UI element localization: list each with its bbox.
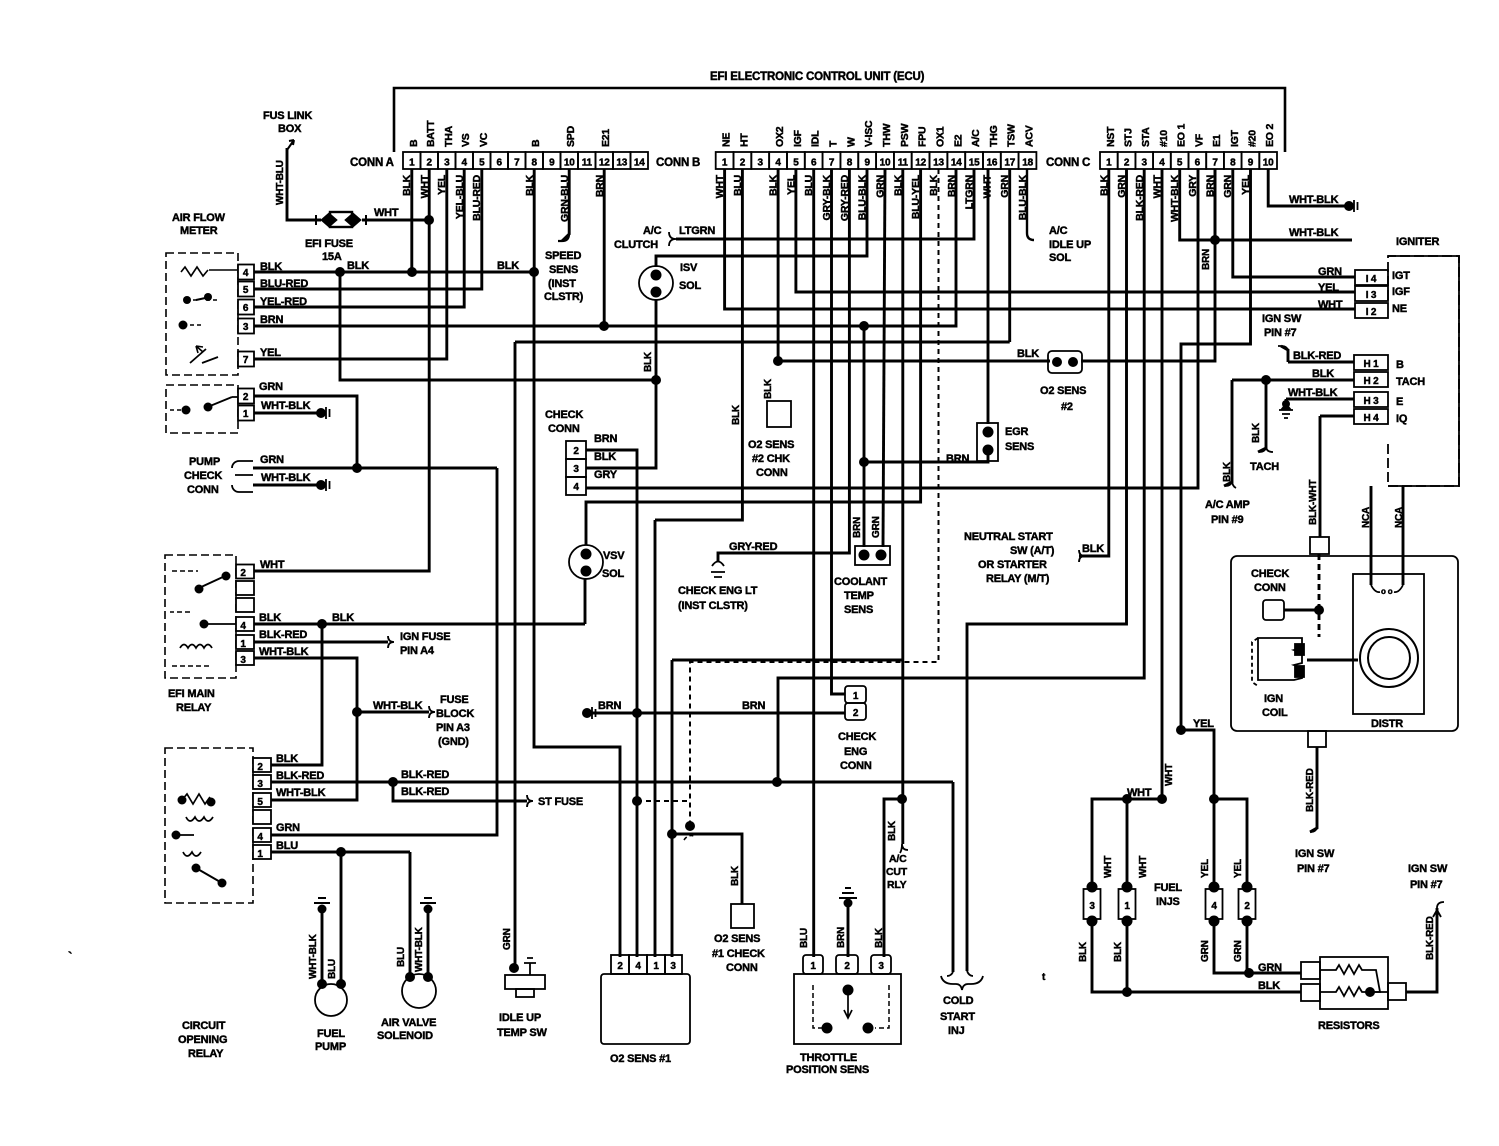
rotated labels <box>275 160 1436 979</box>
svg-text:2: 2 <box>844 961 850 972</box>
svg-text:CLSTR): CLSTR) <box>544 291 584 303</box>
svg-text:CUT: CUT <box>886 866 908 878</box>
resistors <box>1301 957 1406 1009</box>
connector stub pump check conn end <box>317 479 330 491</box>
svg-text:1: 1 <box>243 409 249 420</box>
svg-text:2: 2 <box>427 158 433 169</box>
svg-text:BLK: BLK <box>1017 348 1039 360</box>
svg-text:2: 2 <box>617 961 623 972</box>
svg-text:IGF: IGF <box>1392 286 1410 298</box>
svg-text:AIR FLOW: AIR FLOW <box>172 212 226 224</box>
svg-text:COOLANT: COOLANT <box>834 576 887 588</box>
svg-text:IGF: IGF <box>792 129 804 147</box>
svg-text:COIL: COIL <box>1262 707 1288 719</box>
wire coil conn dashed <box>1318 554 1321 637</box>
svg-text:2: 2 <box>573 446 579 457</box>
bracket neutral start BLK <box>1079 550 1085 562</box>
svg-text:13: 13 <box>933 158 944 169</box>
svg-text:`: ` <box>68 949 72 964</box>
svg-text:4: 4 <box>462 158 468 169</box>
svg-text:O2 SENS: O2 SENS <box>1040 385 1086 397</box>
wire efi relay pin1 BLK-RED <box>254 641 388 644</box>
svg-text:TACH: TACH <box>1250 461 1279 473</box>
injector 3 <box>1084 889 1101 919</box>
wire B10 GRN to coolant <box>883 169 885 547</box>
wire vsv sol top to B12 <box>586 169 921 545</box>
svg-text:WHT: WHT <box>1318 299 1343 311</box>
svg-text:OX2: OX2 <box>774 126 786 147</box>
svg-text:7: 7 <box>514 158 520 169</box>
check eng conn connector <box>845 686 866 703</box>
relay CIRCUIT OPENING RELAY <box>165 748 271 903</box>
svg-text:1: 1 <box>257 849 263 860</box>
svg-text:8: 8 <box>532 158 538 169</box>
svg-text:EFI ELECTRONIC CONTROL UNIT (E: EFI ELECTRONIC CONTROL UNIT (ECU) <box>710 71 925 83</box>
svg-text:I 2: I 2 <box>1366 307 1377 318</box>
svg-text:INJS: INJS <box>1156 896 1180 908</box>
cold start inj brace <box>941 976 983 990</box>
svg-text:14: 14 <box>634 158 645 169</box>
svg-text:4: 4 <box>257 832 263 843</box>
svg-text:WHT-BLK: WHT-BLK <box>1289 194 1339 206</box>
svg-text:o o: o o <box>1381 587 1393 596</box>
wire o2 sens2 BRN to C7 <box>1081 169 1215 361</box>
svg-text:VC: VC <box>478 132 490 147</box>
wire B13 dashed <box>690 169 939 826</box>
svg-text:CONN: CONN <box>548 423 580 435</box>
wire C8 GRN to igniter IGT <box>1233 169 1355 277</box>
svg-text:LTGRN: LTGRN <box>679 225 715 237</box>
svg-text:RLY: RLY <box>887 879 907 891</box>
svg-text:BRN: BRN <box>260 314 283 326</box>
svg-text:CONN A: CONN A <box>350 157 394 169</box>
wire check conn pin4 GRY to C6 <box>586 169 1198 488</box>
wire fuel pump WHT-BLK <box>321 908 324 983</box>
svg-text:TACH: TACH <box>1396 376 1425 388</box>
svg-text:WHT-BLK: WHT-BLK <box>259 646 309 658</box>
svg-text:BLK-RED: BLK-RED <box>1305 768 1316 812</box>
svg-text:SENS: SENS <box>549 264 578 276</box>
svg-text:BLK: BLK <box>1222 461 1233 482</box>
svg-text:NCA: NCA <box>1361 507 1372 528</box>
svg-text:8: 8 <box>847 158 853 169</box>
svg-text:B: B <box>530 139 542 147</box>
svg-text:WHT-BLK: WHT-BLK <box>261 400 311 412</box>
svg-text:RELAY (M/T): RELAY (M/T) <box>986 573 1050 585</box>
svg-text:17: 17 <box>1004 158 1015 169</box>
wire afm pin2 GRN <box>253 396 357 468</box>
wire GRN down to cor pin4 <box>271 468 497 835</box>
svg-text:PIN #7: PIN #7 <box>1297 863 1330 875</box>
ECU box outline <box>394 88 1285 152</box>
svg-text:#2 CHK: #2 CHK <box>752 453 790 465</box>
wire A2 WHT down <box>254 169 429 571</box>
svg-text:RELAY: RELAY <box>176 702 212 714</box>
wire dashed link to BRN <box>637 800 690 802</box>
tach hook <box>1259 446 1273 452</box>
svg-text:2: 2 <box>853 708 859 719</box>
svg-text:WHT: WHT <box>1164 764 1175 786</box>
svg-text:ENG: ENG <box>844 746 867 758</box>
check conn square (coil box) <box>1263 600 1284 620</box>
wire injector3 BLK down <box>1092 919 1301 992</box>
svg-text:SPD: SPD <box>565 125 577 147</box>
svg-text:SOLENOID: SOLENOID <box>377 1030 433 1042</box>
ign sw pin7 hook (H1) <box>1278 346 1288 352</box>
wire tps pin2 BRN gnd <box>847 898 850 957</box>
svg-text:YEL: YEL <box>1200 859 1211 878</box>
wire TACH branch <box>1258 380 1266 452</box>
svg-text:IGN: IGN <box>1264 693 1283 705</box>
svg-text:YEL: YEL <box>260 347 281 359</box>
svg-text:BLOCK: BLOCK <box>436 708 474 720</box>
svg-text:VS: VS <box>460 133 472 147</box>
svg-text:GRN: GRN <box>260 454 284 466</box>
check eng lt lamp <box>711 562 725 578</box>
connector stub air flow meter pin1 end <box>317 407 330 419</box>
wire BLK-RED to cold start inj <box>952 782 955 972</box>
wire A1 BLK <box>410 169 413 272</box>
wire A10 GRN-BLU speed sens <box>562 169 569 241</box>
svg-text:6: 6 <box>243 303 249 314</box>
svg-text:BLK: BLK <box>497 260 519 272</box>
svg-text:SW (A/T): SW (A/T) <box>1010 545 1055 557</box>
svg-text:3: 3 <box>1142 158 1148 169</box>
igniter box <box>1388 256 1459 486</box>
wire pump check conn WHT-BLK <box>253 484 319 487</box>
svg-text:7: 7 <box>1212 158 1218 169</box>
svg-text:WHT-BLK: WHT-BLK <box>261 472 311 484</box>
svg-text:3: 3 <box>257 779 263 790</box>
svg-text:PIN A3: PIN A3 <box>436 722 470 734</box>
svg-text:INJ: INJ <box>948 1025 965 1037</box>
svg-text:A/C: A/C <box>1049 225 1068 237</box>
svg-text:E1: E1 <box>1211 134 1223 147</box>
svg-text:EFI FUSE: EFI FUSE <box>305 238 353 250</box>
svg-text:#1 CHECK: #1 CHECK <box>712 948 765 960</box>
svg-text:BRN: BRN <box>742 700 765 712</box>
svg-text:4: 4 <box>775 158 781 169</box>
svg-text:BLK: BLK <box>1078 941 1089 962</box>
connector strip CONN B <box>656 152 1036 169</box>
svg-text:YEL: YEL <box>1318 282 1339 294</box>
svg-text:PIN #7: PIN #7 <box>1410 879 1443 891</box>
wire GRN to idle up temp sw <box>514 342 517 968</box>
wire efi relay pin3 WHT-BLK <box>254 658 357 800</box>
svg-text:RELAY: RELAY <box>188 1048 224 1060</box>
svg-text:6: 6 <box>1195 158 1201 169</box>
svg-text:HT: HT <box>738 133 750 147</box>
wire NCA right <box>1402 486 1405 585</box>
igniter H pin boxes <box>1354 355 1388 370</box>
injector 4 <box>1206 889 1223 919</box>
check conn connector <box>566 441 586 495</box>
air valve top stub <box>420 898 436 903</box>
svg-text:1: 1 <box>1106 158 1112 169</box>
svg-text:E: E <box>1396 396 1403 408</box>
svg-text:TEMP: TEMP <box>844 590 874 602</box>
svg-text:EFI MAIN: EFI MAIN <box>168 688 215 700</box>
wire B7 to check eng conn pin1 <box>832 169 846 694</box>
svg-text:GRN: GRN <box>1233 940 1244 962</box>
svg-text:NEUTRAL START: NEUTRAL START <box>964 531 1053 543</box>
svg-text:NCA: NCA <box>1394 507 1405 528</box>
svg-text:WHT-BLK: WHT-BLK <box>308 933 319 979</box>
svg-text:BOX: BOX <box>278 123 302 135</box>
wire B17 GRN stub <box>1008 169 1011 342</box>
svg-text:CLUTCH: CLUTCH <box>614 239 658 251</box>
wire A8 BLK down <box>533 169 536 272</box>
svg-text:4: 4 <box>635 961 641 972</box>
svg-text:IGN FUSE: IGN FUSE <box>400 631 450 643</box>
svg-text:EGR: EGR <box>1005 426 1028 438</box>
connector strip CONN A <box>350 152 648 169</box>
svg-text:CHECK: CHECK <box>184 470 222 482</box>
svg-text:E2: E2 <box>952 134 964 147</box>
bracket st fuse <box>527 795 533 807</box>
svg-text:FUSE: FUSE <box>440 694 469 706</box>
svg-text:I 3: I 3 <box>1366 290 1377 301</box>
wire check conn pin2 BRN down <box>586 450 637 957</box>
svg-text:THA: THA <box>443 125 455 147</box>
svg-text:IQ: IQ <box>1396 413 1408 425</box>
svg-text:BLK: BLK <box>874 927 885 948</box>
svg-text:BLK: BLK <box>730 865 741 886</box>
svg-text:METER: METER <box>180 225 218 237</box>
wire EFI fuse to node A2 <box>362 219 429 222</box>
svg-text:TSW: TSW <box>1006 124 1018 147</box>
svg-text:T: T <box>828 140 840 147</box>
svg-text:10: 10 <box>564 158 575 169</box>
svg-text:YEL: YEL <box>1233 859 1244 878</box>
svg-text:BLK: BLK <box>347 260 369 272</box>
svg-text:8: 8 <box>1230 158 1236 169</box>
svg-text:STJ: STJ <box>1123 128 1135 147</box>
svg-text:IGN SW: IGN SW <box>1295 848 1335 860</box>
ign sw arrow (resistors) <box>1433 902 1444 917</box>
svg-text:DISTR: DISTR <box>1371 718 1403 730</box>
wire C2 GRN to cold start <box>967 169 1127 971</box>
svg-text:SENS: SENS <box>844 604 873 616</box>
svg-text:PIN #9: PIN #9 <box>1211 514 1244 526</box>
svg-text:#20: #20 <box>1247 130 1259 147</box>
wire GRN bus idle-up to B17 <box>515 341 1010 344</box>
svg-text:AIR VALVE: AIR VALVE <box>381 1017 436 1029</box>
pump check conn <box>232 461 253 492</box>
svg-text:PUMP: PUMP <box>189 456 220 468</box>
distr blk-red hook <box>1310 826 1317 832</box>
svg-text:SOL: SOL <box>1049 252 1071 264</box>
svg-text:CIRCUIT: CIRCUIT <box>182 1020 226 1032</box>
svg-text:#2: #2 <box>1061 401 1073 413</box>
wire B1 WHT to igniter NE <box>725 169 1355 309</box>
wire coolant temp BRN up <box>863 326 866 547</box>
svg-text:GRN: GRN <box>502 928 513 950</box>
a/c amp hook <box>1225 480 1236 488</box>
svg-text:BLK-RED: BLK-RED <box>276 770 324 782</box>
svg-text:ACV: ACV <box>1024 125 1036 147</box>
svg-text:SENS: SENS <box>1005 441 1034 453</box>
wire egr sens BRN <box>864 450 988 462</box>
svg-text:CONN: CONN <box>840 760 872 772</box>
svg-text:3: 3 <box>240 655 246 666</box>
pin labels CONN C <box>1098 124 1276 223</box>
relay EFI MAIN RELAY <box>165 555 254 678</box>
wire C5 WHT-BLK <box>1180 169 1352 240</box>
svg-text:CONN C: CONN C <box>1046 157 1090 169</box>
svg-text:7: 7 <box>829 158 835 169</box>
svg-text:BRN: BRN <box>598 700 621 712</box>
svg-text:BRN: BRN <box>594 433 617 445</box>
svg-text:SOL: SOL <box>679 280 701 292</box>
wire check conn to coil <box>1284 609 1319 612</box>
svg-text:BLU: BLU <box>799 928 810 948</box>
wire C4 WHT to injectors <box>1092 169 1162 887</box>
svg-text:RESISTORS: RESISTORS <box>1318 1020 1380 1032</box>
svg-text:O2 SENS: O2 SENS <box>714 933 760 945</box>
svg-text:PIN A4: PIN A4 <box>400 645 435 657</box>
wire A12 BRN down <box>603 169 606 326</box>
svg-text:IGN SW: IGN SW <box>1262 313 1302 325</box>
tps ground <box>839 888 857 898</box>
svg-text:H 2: H 2 <box>1364 376 1380 387</box>
o2 sens #1 check conn <box>731 904 754 928</box>
wire BLK drop to vsv bus <box>340 272 656 380</box>
svg-text:9: 9 <box>1248 158 1254 169</box>
svg-text:WHT: WHT <box>1103 856 1114 878</box>
svg-text:VF: VF <box>1193 133 1205 147</box>
svg-text:START: START <box>940 1011 975 1023</box>
svg-text:GRN: GRN <box>1258 962 1282 974</box>
svg-text:BLK: BLK <box>887 820 898 841</box>
wire C10 WHT-BLK <box>1268 169 1346 206</box>
svg-text:CONN: CONN <box>187 484 219 496</box>
svg-text:SPEED: SPEED <box>545 250 582 262</box>
svg-text:CONN: CONN <box>726 962 758 974</box>
svg-text:WHT: WHT <box>1127 787 1152 799</box>
a/c cut rly bracket <box>900 844 908 853</box>
svg-text:GRN: GRN <box>1200 940 1211 962</box>
wire C9 YEL down <box>1181 169 1251 730</box>
svg-text:A/C AMP: A/C AMP <box>1205 499 1250 511</box>
ign coil symbol <box>1252 638 1304 686</box>
svg-text:ISV: ISV <box>680 262 698 274</box>
svg-text:H 4: H 4 <box>1364 413 1380 424</box>
wire igniter H1 B <box>1288 361 1354 364</box>
svg-text:(INST: (INST <box>548 278 576 290</box>
svg-text:NE: NE <box>1392 303 1407 315</box>
wire YEL to injector4 <box>1213 799 1216 887</box>
svg-text:3: 3 <box>670 961 676 972</box>
svg-text:O2 SENS: O2 SENS <box>748 439 794 451</box>
fuel pump <box>315 984 347 1016</box>
speed sens hook <box>558 234 569 241</box>
svg-text:11: 11 <box>898 158 909 169</box>
wire igniter H2 TACH <box>1232 379 1354 382</box>
svg-text:BLK: BLK <box>1312 368 1334 380</box>
svg-text:CHECK: CHECK <box>838 731 876 743</box>
svg-text:GRY-RED: GRY-RED <box>729 541 778 553</box>
svg-text:WHT: WHT <box>260 559 285 571</box>
wire BLU o2 sens1 pin1 <box>654 520 657 957</box>
svg-text:BLK-RED: BLK-RED <box>1425 916 1436 960</box>
svg-text:1: 1 <box>409 158 415 169</box>
wire C3 BLK-RED <box>778 169 1144 782</box>
svg-text:CHECK: CHECK <box>1251 568 1289 580</box>
svg-text:2: 2 <box>1124 158 1130 169</box>
svg-text:IGT: IGT <box>1392 270 1410 282</box>
wire A3 YEL down <box>253 169 447 359</box>
svg-text:2: 2 <box>243 392 249 403</box>
svg-text:H 1: H 1 <box>1364 359 1380 370</box>
wire igniter H4 IQ <box>1320 415 1354 418</box>
svg-text:3: 3 <box>444 158 450 169</box>
svg-text:5: 5 <box>243 285 249 296</box>
svg-text:BRN: BRN <box>852 517 863 538</box>
wire efi relay pin4 BLK bus <box>254 623 585 626</box>
svg-text:H 3: H 3 <box>1364 396 1380 407</box>
svg-text:SOL: SOL <box>602 568 624 580</box>
wire vsv sol bottom <box>584 578 587 624</box>
wire BRN bus to check eng conn pin2 <box>589 712 845 715</box>
svg-text:O2 SENS #1: O2 SENS #1 <box>610 1053 671 1065</box>
wire BLK branch tps pin3 <box>884 799 902 957</box>
wire A4 YEL-BLU down <box>253 169 464 307</box>
air flow meter pin stubs <box>238 265 254 421</box>
svg-text:FUS LINK: FUS LINK <box>263 110 312 122</box>
svg-text:CONN: CONN <box>756 467 788 479</box>
svg-text:9: 9 <box>865 158 871 169</box>
svg-text:BLK-RED: BLK-RED <box>1293 350 1341 362</box>
svg-text:2: 2 <box>1244 901 1250 912</box>
svg-text:BLK: BLK <box>643 351 654 372</box>
wire injector2 GRN down <box>1246 919 1249 973</box>
svg-text:IGN SW: IGN SW <box>1408 863 1448 875</box>
wire distr BLK-RED down <box>1310 747 1317 832</box>
wire B8 GRY-RED to check eng lt <box>718 169 849 562</box>
svg-text:6: 6 <box>811 158 817 169</box>
svg-text:BLK: BLK <box>928 174 940 196</box>
svg-text:6: 6 <box>497 158 503 169</box>
idle up temp sw <box>505 958 545 997</box>
svg-text:9: 9 <box>549 158 555 169</box>
svg-text:3: 3 <box>573 464 579 475</box>
svg-text:GRN: GRN <box>276 822 300 834</box>
svg-text:18: 18 <box>1022 158 1033 169</box>
svg-text:CHECK: CHECK <box>545 409 583 421</box>
wire BLU to air valve <box>409 852 412 976</box>
wire A8 BLK to o2 sens1 pin2 <box>534 272 620 957</box>
svg-text:1: 1 <box>722 158 728 169</box>
ground H3 <box>1282 400 1290 408</box>
air flow meter box <box>166 253 238 433</box>
distr cap contacts <box>1371 585 1403 592</box>
svg-text:WHT-BLK: WHT-BLK <box>1289 227 1339 239</box>
svg-text:CONN B: CONN B <box>656 157 700 169</box>
wire BLK to o2 sens1 check conn <box>672 834 742 904</box>
svg-text:BLK: BLK <box>763 378 774 399</box>
svg-text:FPU: FPU <box>917 127 929 147</box>
svg-text:PUMP: PUMP <box>315 1041 346 1053</box>
svg-text:1: 1 <box>653 961 659 972</box>
svg-text:3: 3 <box>243 322 249 333</box>
svg-text:GRN: GRN <box>1318 266 1342 278</box>
svg-text:1: 1 <box>240 639 246 650</box>
distr bottom connector <box>1308 731 1326 747</box>
connector strip CONN C <box>1046 152 1277 169</box>
wire BLK down to o2 sens1 pin3 <box>671 660 674 957</box>
svg-text:IGNITER: IGNITER <box>1396 236 1439 248</box>
